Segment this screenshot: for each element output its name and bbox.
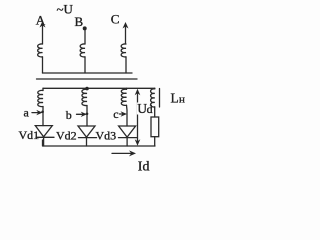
phase C input arrow bbox=[123, 22, 129, 44]
wire: primary A to neutral bus bbox=[42, 57, 44, 73]
wire: secondary star bus bbox=[43, 87, 155, 89]
phase B terminal dot bbox=[83, 26, 87, 30]
diode Vd3 bbox=[119, 126, 137, 146]
wire: phase B terminal to primary winding B bbox=[84, 30, 86, 44]
label Vd1 bbox=[19, 128, 40, 142]
current arrow Id bbox=[112, 150, 136, 156]
label Lн bbox=[171, 90, 186, 105]
wire: primary C to neutral bus bbox=[125, 57, 127, 73]
label ~U bbox=[57, 2, 74, 17]
svg-text:Vd3: Vd3 bbox=[96, 128, 117, 142]
transformer secondary winding a bbox=[38, 90, 43, 106]
transformer secondary winding c bbox=[121, 89, 126, 105]
wire: secondary c to diode Vd3 bbox=[126, 105, 129, 126]
inductor Lн core line bbox=[159, 89, 161, 108]
node B (phase B terminal label) bbox=[75, 14, 84, 29]
transformer primary winding A bbox=[38, 44, 43, 57]
wire: secondary a to diode Vd1 bbox=[42, 107, 44, 126]
label Ud bbox=[137, 101, 154, 116]
label Vd3 bbox=[96, 128, 117, 142]
diode Vd1 bbox=[35, 126, 54, 146]
phase A input arrow bbox=[40, 21, 46, 44]
diode Vd2 bbox=[78, 126, 97, 146]
transformer primary winding B bbox=[80, 44, 85, 57]
voltage arrow Ud (double-headed measurement line) bbox=[135, 89, 141, 146]
wire: secondary c top stub bbox=[126, 88, 128, 89]
wire: primary neutral bus bbox=[43, 72, 133, 74]
wire: cathode bus bbox=[43, 140, 156, 146]
node b label bbox=[66, 108, 72, 122]
svg-text:a: a bbox=[24, 106, 30, 120]
svg-text:~U: ~U bbox=[57, 2, 74, 17]
svg-text:Vd1: Vd1 bbox=[19, 128, 40, 142]
svg-text:Vd2: Vd2 bbox=[56, 128, 77, 142]
svg-text:c: c bbox=[113, 107, 118, 121]
node C (phase C terminal label) bbox=[111, 11, 120, 26]
wire: secondary a top stub bbox=[42, 88, 44, 90]
transformer secondary winding b bbox=[82, 89, 87, 105]
node a arrow bbox=[32, 110, 44, 115]
svg-text:н: н bbox=[179, 93, 185, 105]
node c label bbox=[113, 107, 118, 121]
wire: star bus corner down to inductor Lн bbox=[154, 87, 156, 90]
wire: secondary b to diode Vd2 bbox=[86, 106, 88, 127]
svg-text:d: d bbox=[147, 102, 153, 116]
svg-text:B: B bbox=[75, 14, 84, 29]
wire: primary B to neutral bus bbox=[84, 57, 86, 73]
junction: secondary b on star bus bbox=[85, 87, 89, 91]
wire: load resistor to cathode bus bbox=[154, 137, 156, 146]
transformer core bar bbox=[37, 78, 138, 80]
svg-text:C: C bbox=[111, 11, 120, 26]
label Id bbox=[138, 160, 150, 175]
load resistor bbox=[151, 117, 159, 137]
svg-text:L: L bbox=[171, 90, 179, 105]
inductor Lн (load inductor winding) bbox=[151, 89, 155, 107]
label Vd2 bbox=[56, 128, 77, 142]
node c arrow bbox=[120, 111, 128, 117]
wire: inductor to load resistor bbox=[154, 107, 156, 117]
node a label bbox=[24, 106, 30, 120]
node b arrow bbox=[77, 112, 89, 117]
node A (phase A terminal label) bbox=[36, 13, 46, 28]
svg-text:Id: Id bbox=[138, 160, 150, 175]
transformer primary winding C bbox=[121, 44, 126, 57]
svg-text:b: b bbox=[66, 108, 72, 122]
